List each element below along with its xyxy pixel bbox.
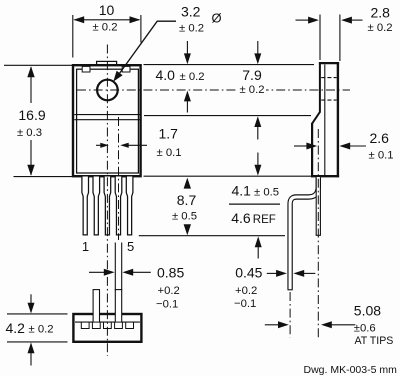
svg-text:± 0.5: ± 0.5	[254, 187, 279, 199]
svg-text:2.8: 2.8	[371, 5, 391, 21]
svg-text:± 0.1: ± 0.1	[157, 147, 182, 159]
step extension line	[144, 115, 311, 117]
svg-text:4.2: 4.2	[6, 320, 26, 336]
svg-text:0.85: 0.85	[157, 264, 184, 280]
dim 10 extension line left	[72, 15, 74, 58]
dim 4.2 arrow down	[28, 303, 35, 314]
dim 2.8 extension right	[339, 15, 341, 62]
dim 10 extension line right	[140, 15, 142, 43]
side view upper-left edge	[319, 62, 321, 112]
bent lead tip cap	[288, 289, 293, 291]
body bottom extension line	[144, 175, 312, 177]
lead bend extension line	[229, 203, 280, 205]
hole leader line	[117, 21, 177, 77]
dim 16.9 extension top	[4, 64, 79, 66]
dim 1.7 arrow left	[100, 143, 109, 148]
hole hidden line bottom	[321, 99, 336, 101]
svg-text:8.7: 8.7	[177, 192, 197, 208]
bottom view lead slot 4	[115, 322, 123, 328]
dim 7.9 arrow top	[254, 53, 261, 64]
svg-text:± 0.2: ± 0.2	[179, 23, 204, 35]
dim 2.6 arrow right	[339, 143, 350, 150]
dim 4.1 arrow	[254, 165, 261, 176]
dim 4.0 arrow bottom	[184, 91, 191, 102]
svg-text:+0.2: +0.2	[158, 285, 180, 297]
dim 4.2 extension bottom	[7, 341, 68, 343]
dim 2.8 arrow right	[341, 17, 352, 24]
svg-text:± 0.5: ± 0.5	[172, 210, 197, 222]
svg-text:± 0.2: ± 0.2	[368, 22, 393, 34]
side view bottom edge	[311, 175, 339, 177]
svg-text:± 0.2: ± 0.2	[239, 84, 264, 96]
dim 16.9 arrow down	[27, 165, 34, 176]
svg-text:4.0: 4.0	[156, 67, 176, 83]
svg-text:16.9: 16.9	[18, 107, 45, 123]
svg-text:5: 5	[127, 239, 134, 254]
svg-text:4.1: 4.1	[232, 182, 252, 198]
dim 16.9 extension bottom	[14, 176, 80, 178]
svg-text:±0.6: ±0.6	[354, 323, 376, 335]
side view lower-left edge	[311, 123, 313, 177]
dim 2.8 arrow left	[308, 17, 319, 24]
dim 0.85 arrow right	[122, 269, 133, 276]
front view inner outline	[77, 69, 139, 173]
dim 10 line	[75, 19, 140, 21]
dim 0.45 arrow left	[276, 270, 287, 277]
svg-text:± 0.3: ± 0.3	[17, 127, 42, 139]
svg-text:10: 10	[99, 2, 115, 18]
svg-text:± 0.1: ± 0.1	[369, 149, 394, 161]
straight lead side view	[316, 177, 320, 235]
upturned pin 4 bottom view	[115, 290, 121, 322]
svg-text:± 0.2: ± 0.2	[92, 22, 117, 34]
dim 4.0 arrow top	[184, 53, 191, 64]
bottom view lead slot 1	[81, 322, 89, 328]
bottom view lead slot 5	[126, 322, 134, 328]
svg-text:−0.1: −0.1	[234, 298, 256, 310]
dim 16.9 line upper	[30, 67, 32, 103]
bent lead side view	[290, 177, 318, 290]
centerline bent lead side	[289, 292, 291, 338]
hole leader arrowhead	[113, 71, 122, 82]
mounting tab on top	[97, 61, 117, 64]
extension lines lead width 0.85	[114, 243, 116, 291]
bottom view body outline	[73, 314, 141, 342]
svg-text:1: 1	[82, 239, 89, 254]
body step line lower	[74, 119, 140, 121]
bottom view face line	[75, 321, 140, 323]
dim 0.85 arrow left	[104, 269, 115, 276]
svg-text:+0.2: +0.2	[235, 285, 257, 297]
dim 10 arrow right	[130, 16, 141, 23]
svg-text:2.6: 2.6	[370, 130, 390, 146]
centerline straight lead side	[317, 129, 319, 338]
side view step chamfer	[312, 112, 320, 124]
svg-text:± 0.2: ± 0.2	[180, 71, 205, 83]
svg-text:−0.1: −0.1	[156, 299, 178, 311]
svg-text:3.2: 3.2	[181, 3, 201, 19]
dim 4.2 arrow up	[28, 342, 35, 353]
hole hidden line top	[321, 77, 336, 79]
lead 3 front view	[104, 177, 111, 235]
side view right edge	[337, 62, 339, 177]
dim 10 arrow left	[73, 16, 84, 23]
svg-text:± 0.2: ± 0.2	[29, 324, 54, 336]
svg-text:AT TIPS: AT TIPS	[355, 335, 394, 347]
front view body outline	[73, 65, 141, 176]
lead 1 front view	[82, 177, 89, 235]
horizontal centerline hole	[77, 89, 350, 91]
vertical centerline pin 3	[106, 45, 108, 357]
mounting hole	[97, 80, 118, 101]
dim 4.6 arrow	[255, 236, 262, 247]
svg-text:7.9: 7.9	[242, 67, 262, 83]
lead 5 front view	[126, 177, 133, 235]
svg-text:4.6: 4.6	[231, 210, 251, 226]
dim 2.8 extension left	[319, 15, 321, 61]
svg-text:Dwg. MK-003-5 mm: Dwg. MK-003-5 mm	[304, 364, 398, 376]
svg-text:Ø: Ø	[212, 10, 222, 25]
dim 16.9 line lower	[30, 140, 32, 175]
upturned pin 2 bottom view	[93, 290, 99, 322]
dim 7.9 arrow bottom	[254, 116, 261, 127]
side view top edge	[319, 62, 339, 64]
dim 16.9 arrow up	[27, 66, 34, 77]
lead 2 front view	[93, 177, 100, 235]
top notch right	[122, 66, 130, 72]
vertical centerline pin 4	[118, 117, 120, 240]
dim 1.7 arrow right	[120, 143, 129, 148]
dim 2.6 arrow left	[306, 143, 317, 150]
lead tips extension line	[139, 235, 285, 237]
top edge extension line	[144, 64, 315, 66]
dim 8.7 arrow down	[184, 224, 191, 235]
top notch left	[82, 66, 90, 72]
svg-text:5.08: 5.08	[354, 302, 381, 318]
side view tab inner line	[324, 64, 326, 175]
dim 5.08 arrow left	[278, 321, 289, 328]
dim 0.45 arrow right	[293, 270, 304, 277]
svg-text:1.7: 1.7	[159, 125, 179, 141]
dim 5.08 arrow right	[321, 321, 332, 328]
bottom view lead slot 2	[92, 322, 100, 328]
dim 4.2 extension top	[7, 313, 68, 315]
lead 4 front view	[115, 177, 122, 235]
dim 7.9 tol text	[238, 82, 266, 95]
svg-text:REF: REF	[253, 214, 276, 226]
svg-text:0.45: 0.45	[235, 264, 262, 280]
body step line upper	[74, 114, 140, 116]
dim 8.7 arrow up	[184, 178, 191, 189]
bottom view lead slot 3	[104, 322, 112, 328]
